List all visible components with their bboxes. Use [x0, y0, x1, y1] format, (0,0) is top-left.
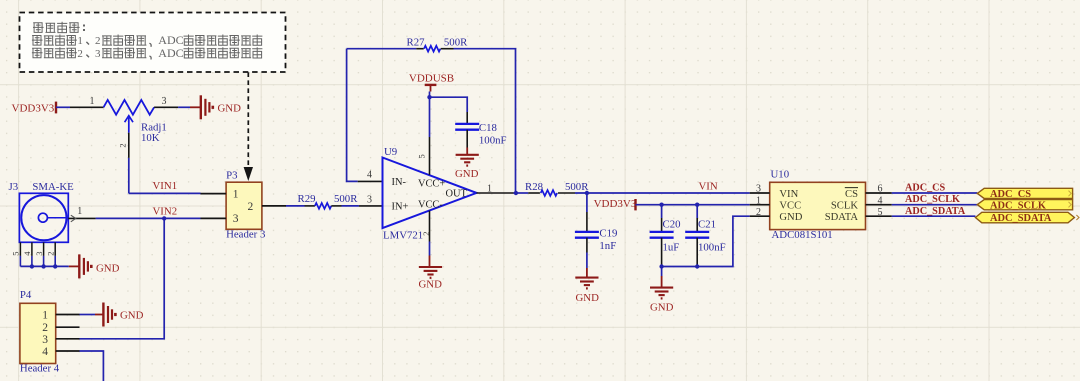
- svg-text:IN-: IN-: [392, 177, 407, 188]
- svg-text:VIN1: VIN1: [153, 180, 178, 192]
- svg-text:2: 2: [421, 232, 431, 236]
- svg-text:GND: GND: [96, 263, 120, 275]
- svg-text:6: 6: [878, 184, 883, 195]
- svg-text:VIN: VIN: [779, 189, 798, 200]
- svg-text:SCLK: SCLK: [831, 201, 858, 212]
- svg-text:OUT: OUT: [446, 188, 468, 199]
- svg-text:5: 5: [878, 207, 883, 218]
- svg-text:GND: GND: [455, 168, 479, 180]
- svg-text:5: 5: [11, 252, 21, 256]
- svg-text:2: 2: [248, 201, 254, 213]
- svg-text:VDDUSB: VDDUSB: [409, 72, 454, 84]
- svg-text:J3: J3: [9, 181, 19, 193]
- svg-text:10K: 10K: [141, 132, 160, 144]
- svg-text:R29: R29: [298, 193, 316, 205]
- svg-text:ADC_SDATA: ADC_SDATA: [905, 206, 966, 217]
- svg-text:2: 2: [77, 48, 83, 60]
- svg-text:500R: 500R: [565, 181, 589, 193]
- svg-text:3: 3: [34, 252, 44, 256]
- svg-text:SMA-KE: SMA-KE: [32, 181, 74, 193]
- svg-text:4: 4: [42, 346, 48, 358]
- svg-text:3: 3: [756, 184, 761, 195]
- svg-text:ADC: ADC: [158, 46, 183, 60]
- svg-text:1: 1: [77, 206, 82, 217]
- svg-text:ADC_SCLK: ADC_SCLK: [905, 194, 960, 205]
- svg-text:SDATA: SDATA: [825, 212, 859, 223]
- svg-text:Header 3: Header 3: [226, 229, 265, 241]
- svg-text:1: 1: [90, 96, 95, 107]
- svg-text:1: 1: [487, 184, 492, 195]
- svg-text:Header 4: Header 4: [20, 362, 60, 374]
- svg-text:C20: C20: [663, 218, 681, 230]
- svg-text:2: 2: [117, 143, 127, 147]
- svg-text:VDD3V3: VDD3V3: [12, 102, 55, 114]
- svg-text:4: 4: [878, 195, 883, 206]
- svg-text:1: 1: [77, 35, 83, 47]
- svg-text:3: 3: [42, 334, 48, 346]
- svg-text:GND: GND: [576, 292, 600, 304]
- svg-text:ADC_CS: ADC_CS: [990, 189, 1031, 200]
- svg-text:C18: C18: [479, 122, 497, 134]
- svg-text:1uF: 1uF: [663, 241, 680, 253]
- svg-text:R28: R28: [525, 181, 543, 193]
- svg-text:GND: GND: [218, 103, 242, 115]
- svg-text:2: 2: [95, 35, 101, 47]
- svg-text:ADC081S101: ADC081S101: [772, 229, 833, 241]
- svg-text:U10: U10: [771, 168, 790, 180]
- svg-text:GND: GND: [779, 212, 802, 223]
- svg-text:VCC-: VCC-: [418, 200, 443, 211]
- svg-text:4: 4: [22, 251, 32, 256]
- svg-text:3: 3: [367, 195, 372, 206]
- svg-text:U9: U9: [384, 146, 397, 158]
- svg-text:GND: GND: [419, 279, 443, 291]
- svg-text:C21: C21: [698, 218, 716, 230]
- svg-text:100nF: 100nF: [698, 241, 726, 253]
- svg-text:VDD3V3: VDD3V3: [594, 198, 637, 210]
- svg-text:4: 4: [367, 170, 372, 181]
- svg-text:500R: 500R: [444, 36, 468, 48]
- svg-text:2: 2: [45, 252, 55, 256]
- svg-text:VIN2: VIN2: [153, 205, 178, 217]
- svg-text:3: 3: [95, 48, 101, 60]
- svg-text:P3: P3: [226, 169, 237, 181]
- svg-text:5: 5: [416, 154, 426, 158]
- svg-text:2: 2: [42, 322, 48, 334]
- svg-text:CS: CS: [845, 189, 858, 200]
- svg-text:1: 1: [233, 188, 239, 200]
- svg-text:C19: C19: [599, 227, 617, 239]
- svg-text:2: 2: [756, 207, 761, 218]
- svg-text:100nF: 100nF: [479, 134, 507, 146]
- svg-text:LMV721: LMV721: [383, 230, 423, 242]
- svg-text:3: 3: [233, 213, 239, 225]
- svg-text:3: 3: [162, 96, 167, 107]
- svg-text:R27: R27: [407, 36, 426, 48]
- svg-text:GND: GND: [650, 301, 674, 313]
- svg-text:1: 1: [42, 310, 48, 322]
- svg-text:500R: 500R: [334, 193, 358, 205]
- svg-text:ADC_SCLK: ADC_SCLK: [990, 200, 1046, 211]
- svg-text:VCC: VCC: [779, 201, 801, 212]
- svg-text:IN+: IN+: [392, 202, 409, 213]
- svg-text:VIN: VIN: [699, 180, 718, 192]
- svg-text:VCC+: VCC+: [418, 179, 445, 190]
- svg-text:1: 1: [756, 195, 761, 206]
- svg-text:GND: GND: [120, 309, 144, 321]
- svg-text:ADC_SDATA: ADC_SDATA: [990, 213, 1052, 224]
- svg-text:1nF: 1nF: [599, 240, 616, 252]
- svg-text:P4: P4: [20, 289, 32, 301]
- svg-text:ADC_CS: ADC_CS: [905, 183, 946, 194]
